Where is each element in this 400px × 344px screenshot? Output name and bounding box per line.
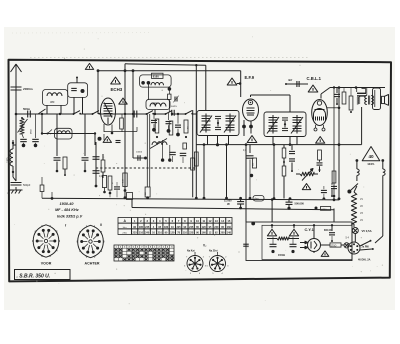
svg-text:3: 3 [124, 247, 125, 249]
svg-text:15: 15 [227, 219, 230, 223]
svg-text:160: 160 [227, 226, 232, 229]
svg-text:. S.B.R. 350 U.: . S.B.R. 350 U. [17, 274, 51, 280]
svg-text:151Ω: 151Ω [331, 246, 337, 248]
svg-text:500.000: 500.000 [295, 201, 305, 205]
svg-text:282: 282 [153, 101, 158, 105]
svg-text:1000: 1000 [7, 157, 10, 163]
svg-text:380: 380 [50, 100, 55, 104]
svg-text:205: 205 [220, 232, 225, 235]
svg-text:500: 500 [255, 198, 260, 201]
svg-text:150Ω: 150Ω [278, 253, 286, 257]
svg-text:120: 120 [202, 226, 207, 229]
svg-text:V5 0,5A: V5 0,5A [362, 229, 372, 233]
svg-text:225: 225 [133, 232, 138, 235]
svg-text:ACHTER: ACHTER [85, 262, 100, 266]
svg-text:4nf: 4nf [288, 78, 292, 82]
svg-text:1930-40: 1930-40 [60, 202, 75, 206]
svg-text:225: 225 [189, 232, 194, 235]
svg-text:2a RW: 2a RW [362, 246, 370, 249]
svg-text:5: 5 [133, 247, 134, 249]
svg-text:3: 3 [163, 247, 164, 249]
svg-text:II: II [100, 223, 102, 227]
svg-text:800.000: 800.000 [324, 229, 333, 232]
svg-text:5WF5: 5WF5 [171, 106, 178, 108]
svg-text:40 DHL 2A: 40 DHL 2A [358, 259, 371, 262]
svg-text:180: 180 [164, 226, 169, 229]
svg-text:10000: 10000 [136, 152, 143, 154]
svg-text:9: 9 [150, 247, 151, 249]
svg-text:148: 148 [227, 232, 232, 235]
svg-text:VOOR: VOOR [41, 262, 52, 266]
svg-text:240: 240 [214, 226, 219, 229]
svg-text:C.B.L.1: C.B.L.1 [307, 76, 322, 81]
svg-text:500m: 500m [23, 107, 31, 111]
svg-text:110: 110 [183, 232, 188, 235]
svg-text:185: 185 [139, 226, 144, 229]
svg-text:E.F.9: E.F.9 [245, 75, 255, 80]
svg-text:MF - 484 KHz: MF - 484 KHz [55, 208, 79, 212]
svg-text:7: 7 [141, 247, 142, 249]
svg-text:2000m: 2000m [23, 87, 33, 91]
svg-text:C.Y.1: C.Y.1 [305, 227, 315, 232]
svg-text:6160: 6160 [153, 75, 159, 79]
svg-text:8: 8 [146, 247, 147, 249]
svg-text:110V.: 110V. [367, 162, 375, 166]
svg-text:V₂: V₂ [203, 244, 207, 248]
svg-text:Indk 335Ω p.V: Indk 335Ω p.V [57, 215, 83, 219]
svg-text:1: 1 [154, 247, 155, 249]
svg-text:10: 10 [196, 219, 199, 223]
svg-text:500pF: 500pF [23, 183, 31, 187]
svg-text:13: 13 [215, 219, 218, 223]
svg-text:245: 245 [145, 226, 150, 229]
svg-text:245: 245 [189, 226, 194, 229]
svg-text:2: 2 [158, 247, 159, 249]
svg-text:4MΩ: 4MΩ [31, 129, 33, 134]
svg-text:225: 225 [177, 226, 182, 229]
svg-text:150: 150 [145, 192, 147, 195]
svg-text:0,10: 0,10 [123, 179, 125, 183]
svg-text:Ha+: Ha+ [123, 227, 128, 229]
svg-text:40: 40 [368, 154, 374, 159]
svg-text:6: 6 [137, 247, 138, 249]
svg-text:6250: 6250 [322, 209, 328, 211]
svg-text:12: 12 [209, 219, 212, 223]
svg-text:210: 210 [158, 232, 163, 235]
svg-text:ECH3: ECH3 [111, 87, 123, 92]
svg-text:525: 525 [252, 163, 254, 166]
svg-text:2: 2 [120, 247, 121, 249]
svg-text:210: 210 [139, 232, 144, 235]
svg-text:120: 120 [170, 232, 175, 235]
svg-text:240: 240 [145, 232, 150, 235]
svg-text:14: 14 [221, 219, 224, 223]
svg-text:160: 160 [202, 232, 207, 235]
svg-text:1: 1 [116, 247, 117, 249]
svg-text:5: 5 [171, 247, 172, 249]
